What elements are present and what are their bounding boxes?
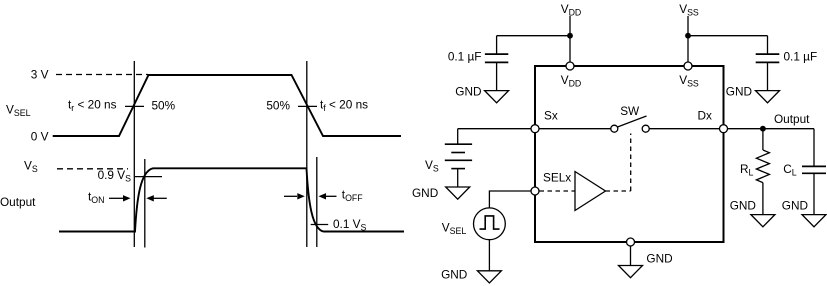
ground (CL) [802, 215, 826, 227]
wire VDD supply to pin [569, 16, 571, 62]
tick 0.1 VS [311, 224, 329, 226]
svg-text:GND: GND [412, 186, 438, 200]
svg-text:GND: GND [455, 85, 481, 99]
ground (C2) [756, 91, 780, 103]
measurement line at falling-edge 50% [306, 61, 308, 247]
tick 50% falling [298, 105, 317, 107]
driver buffer (triangle) [575, 172, 606, 211]
svg-text:GND: GND [730, 199, 756, 213]
ground (RL) [751, 215, 775, 227]
pin SELx [531, 187, 539, 195]
capacitor C1 0.1 uF [485, 36, 508, 91]
capacitor CL [802, 166, 826, 214]
svg-text:50%: 50% [266, 99, 290, 113]
svg-text:tr < 20 ns: tr < 20 ns [68, 98, 117, 114]
svg-text:GND: GND [726, 85, 752, 99]
wire Sx pin to VS source [458, 128, 531, 130]
pin Sx [531, 125, 539, 133]
node junction VSS [685, 33, 691, 39]
tick 50% rising [125, 105, 144, 107]
svg-text:GND: GND [646, 252, 672, 266]
DUT box U1 [535, 66, 724, 242]
svg-text:tf < 20 ns: tf < 20 ns [320, 98, 368, 114]
svg-text:0.1 µF: 0.1 µF [784, 50, 818, 64]
tOFF arrow left-pointing [325, 195, 337, 197]
wire Sx to switch [539, 128, 611, 130]
pin VDD [566, 62, 574, 70]
wire Dx to output network [728, 128, 815, 130]
ground (battery) [446, 187, 470, 199]
dashed control wire vertical to switch [630, 134, 632, 192]
tick 0.9 VS [135, 176, 162, 178]
svg-text:Output: Output [774, 112, 810, 126]
wire VSS node to C2 [688, 35, 768, 37]
dashed control wire SELx pin to driver [540, 190, 576, 192]
svg-text:3 V: 3 V [31, 68, 49, 82]
pin VSS [684, 62, 692, 70]
tON arrow right-pointing [109, 197, 124, 199]
dashed control wire driver to switch [606, 190, 631, 192]
pulse source VSEL [474, 208, 506, 240]
wire VSS supply to pin [687, 16, 689, 62]
ground (DUT) [619, 266, 643, 278]
svg-text:Sx: Sx [544, 109, 558, 123]
wire switch to Dx [649, 128, 719, 130]
resistor RL [756, 129, 769, 215]
measurement line at output 0.9 VS [144, 159, 146, 248]
capacitor C2 0.1 uF [756, 36, 780, 91]
svg-text:SW: SW [620, 104, 640, 118]
output waveform [59, 168, 404, 231]
tON arrow left-pointing [152, 197, 167, 199]
3 V reference dashed line [56, 74, 148, 76]
pin GND [627, 238, 635, 246]
node Output junction [760, 126, 766, 132]
ground (pulse source) [477, 271, 501, 283]
svg-text:SELx: SELx [543, 171, 571, 185]
wire VDD node to C1 [497, 35, 570, 37]
measurement line at rising-edge 50% [133, 61, 135, 247]
svg-text:GND: GND [782, 199, 808, 213]
svg-text:Output: Output [0, 195, 36, 209]
svg-text:0 V: 0 V [31, 129, 49, 143]
svg-text:50%: 50% [152, 99, 176, 113]
svg-text:Dx: Dx [698, 109, 713, 123]
pin Dx [720, 125, 728, 133]
VSEL input waveform [53, 75, 401, 136]
wire pulse source to ground [488, 240, 490, 271]
source VS battery [445, 129, 472, 187]
wire output node to CL [813, 129, 815, 167]
VS reference dashed line [57, 168, 128, 170]
switch SW [611, 116, 649, 132]
tOFF arrow right-pointing [284, 195, 297, 197]
wire GND pin to ground [630, 246, 632, 266]
svg-text:GND: GND [441, 268, 467, 282]
measurement line at output 0.1 VS [316, 157, 318, 247]
ground (C1) [485, 91, 509, 103]
wire SELx pin to pulse source [489, 191, 531, 208]
node junction VDD [567, 33, 573, 39]
svg-text:0.1 µF: 0.1 µF [448, 50, 482, 64]
